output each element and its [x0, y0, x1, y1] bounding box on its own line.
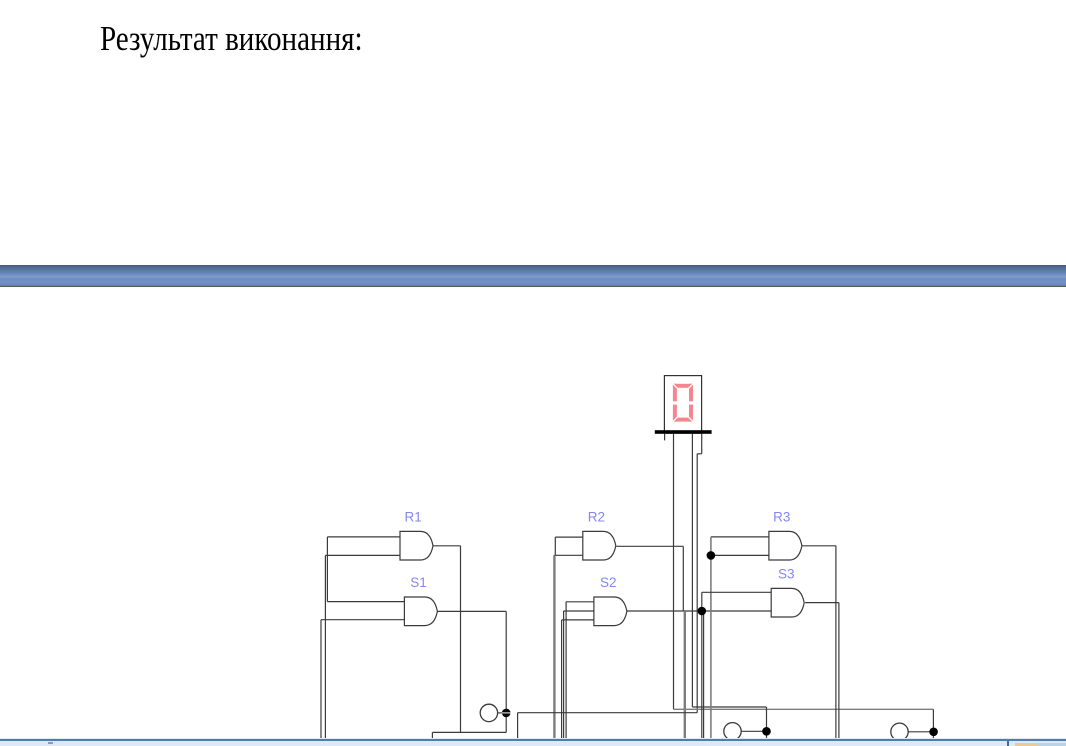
wire R1 output horizontal	[433, 545, 461, 547]
wire display pin 2 long vertical	[673, 434, 675, 710]
wire stub down from long horizontal	[517, 713, 519, 739]
AND gate S2	[594, 597, 627, 626]
AND gate R2	[583, 531, 616, 560]
display segment c (bottom-right)	[689, 405, 693, 422]
wire R1 output vertical	[460, 546, 462, 733]
wire R3 input A	[711, 536, 770, 538]
AND gate R3	[769, 531, 802, 560]
wire bus segment R2.A down	[554, 537, 556, 555]
wire R2 input A	[555, 536, 583, 538]
display bevel cuts	[673, 384, 693, 422]
wire bus down from S1.B	[320, 620, 322, 739]
wire display pin 3 long vertical	[691, 434, 693, 707]
junction junction4 at connector 3	[929, 728, 938, 737]
scrollbar thumb tan	[1015, 743, 1037, 746]
wire R2 output horizontal	[616, 545, 683, 547]
wire R3 output horizontal	[803, 545, 836, 547]
AND gate R1	[400, 531, 433, 560]
wire bottom run left	[432, 731, 506, 733]
wire R3 output vertical	[835, 546, 837, 739]
svg-text:S1: S1	[410, 575, 427, 590]
wire bus segment R1.A to S1.A	[326, 537, 328, 602]
wire extra drop from junction2	[703, 611, 705, 739]
svg-text:R2: R2	[588, 509, 605, 524]
connector input 1	[480, 704, 497, 721]
wire S1 input B	[321, 619, 405, 621]
wire S2 output long run to S3 input B	[564, 610, 772, 612]
wire gray run below R2 output	[684, 611, 686, 739]
7-segment display U1 body	[664, 376, 701, 434]
scrollbar track right	[1037, 743, 1066, 746]
wire below junction4	[932, 732, 934, 739]
AND gate S3	[771, 588, 804, 617]
heading text	[100, 20, 363, 59]
display segment b (top-right)	[689, 384, 693, 402]
wire riser to junction3	[766, 707, 768, 731]
svg-text:R1: R1	[405, 509, 422, 524]
wire bus down from S2 output underpass	[563, 611, 565, 739]
wire S2 input A	[566, 601, 594, 603]
wire display pin 4 upper	[701, 434, 703, 454]
wire gray bus below R2.B	[553, 555, 555, 738]
scrollbar tick left	[48, 742, 53, 744]
wire bus through junction1	[710, 537, 712, 739]
wire long horizontal pin2 to right riser	[674, 708, 934, 710]
wire bus down from S2.A	[565, 602, 567, 739]
wire R3 input B	[711, 554, 770, 556]
wire S1 output vertical	[505, 611, 507, 732]
bottom bar divider	[1007, 741, 1009, 746]
wire S1 output horizontal	[437, 610, 506, 612]
bottom scrollbar area	[0, 738, 1066, 746]
display mounting bar	[655, 430, 712, 434]
wire display pin 4 vertical	[696, 454, 698, 713]
blue gradient separator bar	[0, 265, 1066, 287]
wire connector3 to junction4	[908, 731, 933, 733]
wire S3 input A	[702, 591, 772, 593]
AND gate S1	[404, 597, 437, 626]
svg-text:R3: R3	[773, 509, 790, 524]
wire R2 input B	[554, 554, 584, 556]
wire bus through junction2	[701, 592, 703, 738]
wire horizontal pin3 to connector2 riser	[692, 706, 766, 708]
wire S2 input B	[562, 619, 595, 621]
bottom bar top line	[0, 739, 1066, 741]
wire R1 input B	[325, 554, 400, 556]
wire right riser to junction4	[932, 709, 934, 732]
junction junction2 on S2 output line	[698, 607, 707, 616]
wire S1 input A	[327, 601, 405, 603]
wire R2 output vertical	[682, 546, 684, 611]
wire below junction3	[766, 731, 768, 738]
wire display pin 4 jog	[697, 453, 702, 455]
wire display pin stub	[664, 434, 666, 441]
display segment f (top-left)	[673, 384, 677, 402]
display segment a (top)	[673, 384, 693, 388]
wire R1 input A	[327, 536, 400, 538]
junction junction3 at connector 2	[762, 727, 771, 736]
svg-text:S2: S2	[600, 575, 617, 590]
connector input 2	[724, 723, 741, 740]
connector input 3	[891, 723, 908, 740]
wire S3 output vertical	[838, 603, 840, 739]
display segment d (bottom)	[673, 418, 693, 422]
wire stub down left	[431, 732, 433, 738]
wire connector1 to junction	[498, 712, 507, 714]
svg-text:S3: S3	[778, 566, 795, 581]
display segment e (bottom-left)	[673, 405, 677, 422]
wire connector2 to junction3	[741, 730, 766, 732]
junction at connector 1	[502, 709, 511, 718]
wire long horizontal to pin 4	[518, 712, 698, 714]
wire S3 output horizontal	[805, 602, 839, 604]
wire bus down from S2.B	[561, 620, 563, 739]
wire bus down from R1.B	[324, 555, 326, 738]
junction junction1 on R3 input B	[707, 551, 716, 560]
